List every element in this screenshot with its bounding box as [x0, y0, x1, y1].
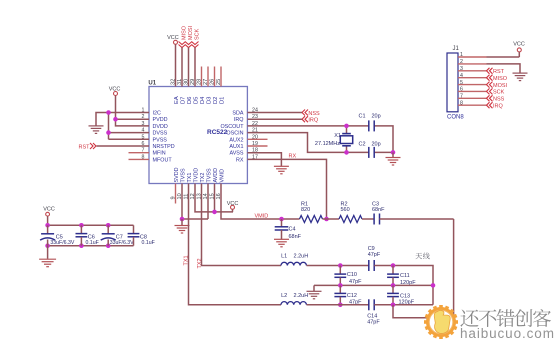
svg-text:IRQ: IRQ: [493, 104, 504, 110]
crystal X1 27.12MHz: [315, 126, 353, 152]
svg-text:D3: D3: [206, 97, 212, 104]
connector J1 CON8 body: [447, 46, 464, 121]
ground symbol below C4: [274, 239, 289, 247]
svg-text:VCC: VCC: [43, 207, 55, 213]
wire VCC to pins 2,3 PVDD DVDD: [116, 96, 150, 126]
svg-text:8: 8: [460, 100, 463, 106]
svg-text:D5: D5: [193, 97, 199, 104]
node junction TVSS pin10: [180, 217, 185, 222]
ground symbol at I2C: [89, 126, 104, 133]
capacitor C10 47pF: [334, 266, 362, 286]
svg-text:SCK: SCK: [493, 90, 505, 96]
wire VMID rail: [221, 184, 300, 220]
wire IRQ pin23 to IRQ port: [247, 118, 302, 120]
svg-text:PVSS: PVSS: [153, 137, 168, 143]
svg-text:VCC: VCC: [167, 35, 179, 41]
port MOSI at J1: [487, 82, 508, 89]
net label RX: [289, 154, 297, 160]
net label TX2: [197, 258, 203, 268]
wire VCC to EA pin 32: [175, 44, 177, 86]
svg-text:AVSS: AVSS: [230, 151, 244, 157]
svg-text:5: 5: [460, 80, 463, 86]
port RST at J1: [487, 68, 505, 75]
capacitor C13 120pF: [387, 285, 415, 305]
node junction pin1 I2C net: [106, 110, 111, 115]
svg-text:1: 1: [460, 52, 463, 58]
wire J1 pin2 to ground: [487, 64, 521, 73]
svg-text:CON8: CON8: [447, 115, 464, 121]
ground symbol at AVSS: [274, 166, 289, 174]
svg-text:SCK: SCK: [194, 28, 200, 40]
port NSS: [302, 110, 320, 118]
capacitor C2 20p: [359, 142, 381, 158]
svg-text:DVSS: DVSS: [153, 131, 168, 137]
svg-text:0.1uF: 0.1uF: [142, 240, 155, 246]
wire SDA pin24 to NSS port: [247, 112, 302, 114]
svg-text:TX2: TX2: [197, 258, 203, 268]
svg-text:MOSI: MOSI: [188, 25, 194, 40]
svg-text:3: 3: [460, 66, 463, 72]
inductor L1 2.2uH: [281, 253, 308, 265]
svg-text:SDA: SDA: [232, 111, 243, 117]
power VCC symbol below IC: [227, 201, 239, 212]
wire TVDD-AVDD-VCC supply line: [195, 184, 233, 212]
power VCC symbol decoupling bank: [43, 207, 55, 216]
port RST: [79, 143, 97, 150]
power VCC symbol above pin 32 EA: [167, 35, 179, 44]
svg-text:TVDD: TVDD: [193, 168, 199, 183]
svg-text:D6: D6: [187, 97, 193, 104]
ground symbol below pin10 TVSS: [175, 219, 190, 233]
svg-text:26: 26: [210, 79, 216, 85]
svg-text:MISO: MISO: [181, 25, 187, 40]
svg-text:L2: L2: [281, 293, 287, 299]
svg-text:VCC: VCC: [109, 87, 121, 93]
port SCK: [192, 28, 201, 47]
svg-text:820: 820: [301, 207, 310, 213]
watermark logo gear: [424, 305, 458, 339]
wire RST to pin6 NRSTPD: [97, 145, 150, 147]
wire R1 to R2: [323, 218, 340, 220]
svg-text:4: 4: [460, 73, 463, 79]
node junction crystal bottom OSCIN: [344, 150, 349, 155]
ground symbol at J1: [513, 73, 528, 81]
capacitor C3 68nF: [372, 201, 385, 224]
wire pins 4,5 DVSS PVSS tie: [109, 113, 150, 140]
node junctions on decoupling rails: [45, 223, 110, 248]
resistor R2 560: [339, 201, 362, 222]
svg-text:X1: X1: [334, 133, 341, 139]
node junction crystal top OSCOUT: [344, 124, 349, 129]
svg-text:6: 6: [460, 87, 463, 93]
text antenna label: [415, 253, 429, 260]
node junction R1-R2-RX: [324, 217, 329, 222]
svg-text:D2: D2: [213, 97, 219, 104]
svg-text:VCC: VCC: [227, 201, 239, 207]
svg-text:33uF/6.3V: 33uF/6.3V: [110, 240, 134, 246]
svg-text:2.2uH: 2.2uH: [294, 253, 309, 259]
svg-text:OSCOUT: OSCOUT: [220, 124, 244, 130]
svg-text:19: 19: [252, 141, 258, 147]
wire C5 column to ground: [47, 246, 49, 259]
port NSS at J1: [487, 95, 505, 102]
svg-text:TVSS: TVSS: [180, 168, 186, 182]
svg-text:VMID: VMID: [219, 169, 225, 183]
wire L1 to C9: [307, 265, 369, 267]
svg-text:20p: 20p: [372, 114, 381, 120]
svg-text:AUX1: AUX1: [229, 144, 243, 150]
IC U1 RC522 body: [148, 81, 247, 184]
svg-text:NRSTPD: NRSTPD: [153, 144, 175, 150]
port IRQ at J1: [487, 102, 504, 109]
svg-text:47pF: 47pF: [349, 279, 362, 285]
svg-text:2.2uH: 2.2uH: [294, 293, 309, 299]
svg-text:VMID: VMID: [255, 214, 269, 220]
svg-text:SVDD: SVDD: [174, 167, 180, 182]
capacitor C12 47pF: [334, 285, 362, 305]
node junction C4 tap: [279, 217, 284, 222]
svg-text:NSS: NSS: [493, 97, 505, 103]
ground symbol at crystal load caps: [386, 152, 401, 165]
svg-text:RST: RST: [79, 144, 91, 150]
capacitor C9 47pF: [368, 246, 381, 271]
svg-text:7: 7: [460, 94, 463, 100]
svg-text:25: 25: [216, 79, 222, 85]
svg-text:C11: C11: [400, 273, 410, 279]
port MOSI: [185, 25, 194, 47]
wire TVSS pins 10,14 ground line: [182, 184, 208, 220]
node junction C13 bottom: [391, 303, 396, 308]
capacitor C11 120pF: [387, 266, 416, 286]
svg-text:C4: C4: [289, 227, 296, 233]
capacitor C1 20p: [359, 114, 381, 132]
svg-text:DVDD: DVDD: [153, 124, 168, 130]
wire TX1 pin11 to L2: [189, 184, 282, 305]
svg-text:MISO: MISO: [493, 76, 508, 82]
node junction C12 bottom: [338, 303, 343, 308]
svg-text:68nF: 68nF: [372, 207, 385, 213]
wire L2 to C14: [307, 304, 369, 306]
svg-text:TX2: TX2: [200, 173, 206, 183]
wire decoupling bottom rail: [48, 245, 134, 247]
node junction C2 ground: [391, 150, 396, 155]
ground symbol antenna middle rail: [307, 285, 322, 298]
U1 top pins 32-25 numbers and names (EA D7 D6 D5 D4 D3 D2 D1): [171, 67, 226, 105]
node junction pin4 DVSS net: [106, 130, 111, 135]
svg-text:20: 20: [252, 134, 258, 140]
svg-text:560: 560: [341, 207, 350, 213]
port MISO at J1: [487, 75, 508, 82]
net label VMID: [255, 214, 269, 220]
svg-text:MFOUT: MFOUT: [153, 157, 173, 163]
svg-text:8: 8: [142, 154, 145, 160]
svg-text:haibucuo.com: haibucuo.com: [460, 326, 554, 341]
svg-text:RST: RST: [493, 69, 505, 75]
wire R2 to C3: [362, 218, 374, 220]
svg-text:D7: D7: [180, 97, 186, 104]
power VCC symbol left of U1: [109, 87, 121, 96]
ground symbol decoupling bank: [39, 259, 56, 267]
power VCC symbol at J1: [513, 42, 525, 52]
wire J1 pin1 to VCC: [487, 52, 520, 57]
node junctions middle rail: [338, 283, 435, 288]
wire antenna feed loop: [393, 219, 454, 318]
wire pin1 I2C to ground: [96, 113, 149, 126]
wire decoupling top rail: [48, 216, 134, 225]
svg-text:33uF/6.3V: 33uF/6.3V: [50, 240, 74, 246]
wire TX2 pin13 to L1: [202, 184, 282, 266]
resistor R1 820: [300, 201, 323, 222]
svg-text:EA: EA: [174, 96, 180, 104]
svg-text:MOSI: MOSI: [493, 83, 508, 89]
svg-text:AVDD: AVDD: [213, 168, 219, 183]
node junction VCC-PVDD: [113, 117, 118, 122]
svg-text:7: 7: [142, 148, 145, 154]
svg-text:C2: C2: [359, 142, 366, 148]
svg-text:VCC: VCC: [513, 42, 525, 48]
svg-text:U1: U1: [148, 81, 156, 87]
svg-text:20p: 20p: [372, 142, 381, 148]
port MISO: [179, 25, 188, 47]
wire C14 to antenna corner: [374, 304, 433, 306]
connector J1 pins 1-8: [458, 52, 487, 106]
wire OSCOUT pin22 to C1 and corner: [247, 126, 393, 152]
inductor L2 2.2uH: [281, 293, 308, 305]
svg-text:0.1uF: 0.1uF: [86, 240, 99, 246]
svg-text:RX: RX: [236, 157, 244, 163]
U1 left pins 1-8 numbers and names (I2C PVDD DVDD DVSS PVSS NRSTPD MFIN MFOUT): [129, 108, 175, 164]
wire antenna middle rail: [314, 284, 433, 286]
port IRQ: [302, 116, 319, 124]
node junction C11 top: [391, 263, 396, 268]
svg-text:2: 2: [460, 59, 463, 65]
svg-text:27: 27: [203, 79, 209, 85]
svg-text:TVSS: TVSS: [206, 168, 212, 182]
svg-text:9: 9: [171, 196, 177, 199]
wire RX pin17 to R1-R2 junction: [247, 159, 326, 219]
svg-text:27.12MHz: 27.12MHz: [315, 141, 340, 147]
svg-text:MFIN: MFIN: [153, 151, 166, 157]
node junction C10 top: [338, 263, 343, 268]
svg-text:AUX2: AUX2: [229, 137, 243, 143]
wire C9 to antenna corner: [374, 266, 433, 305]
svg-text:47pF: 47pF: [367, 320, 380, 326]
svg-text:TX1: TX1: [187, 173, 193, 183]
svg-text:PVDD: PVDD: [153, 117, 168, 123]
port SCK at J1: [487, 88, 505, 95]
svg-text:L1: L1: [281, 253, 287, 259]
U1 right pins 24-17 numbers and names (SDA IRQ OSCOUT OSCIN AUX2 AUX1 AVSS RX): [220, 108, 267, 164]
svg-text:IRQ: IRQ: [234, 117, 244, 123]
node junction AVDD pin15: [212, 210, 217, 215]
svg-text:D1: D1: [219, 97, 225, 104]
wire MISO to pin 31 D7: [181, 48, 183, 87]
capacitor C5 33uF/6.3V: [40, 225, 75, 246]
svg-text:C1: C1: [359, 114, 366, 120]
svg-text:I2C: I2C: [153, 111, 161, 117]
net label TX1: [184, 255, 190, 265]
svg-text:NSS: NSS: [308, 111, 320, 117]
svg-text:68nF: 68nF: [289, 234, 302, 240]
capacitor C6 0.1uF: [76, 225, 99, 246]
wire MOSI to pin 30 D6: [188, 48, 190, 87]
U1 bottom pins 9-16 numbers and names (SVDD TVSS TX1 TVDD TX2 TVSS AVDD VMID): [171, 167, 226, 203]
wire AVDD pin15 drop: [214, 184, 216, 212]
svg-text:47pF: 47pF: [368, 252, 381, 258]
wire AVSS pin18 to ground: [247, 153, 281, 166]
capacitor C14 47pF: [367, 299, 380, 325]
wire OSCIN pin21 routing: [247, 133, 393, 153]
wire C3 to antenna right side: [380, 218, 454, 220]
capacitor C4 68nF: [275, 219, 302, 240]
svg-text:IRQ: IRQ: [308, 118, 319, 124]
capacitor C8 0.1uF: [128, 225, 155, 246]
svg-text:C12: C12: [347, 293, 357, 299]
wire SCK to pin 29 D5: [194, 48, 196, 87]
watermark text haibucuo: [460, 309, 554, 341]
capacitor C7 33uF/6.3V: [101, 225, 134, 246]
svg-text:C10: C10: [347, 272, 357, 278]
svg-text:D4: D4: [200, 96, 206, 104]
svg-text:28: 28: [197, 79, 203, 85]
svg-text:J1: J1: [453, 46, 460, 52]
svg-text:OSCIN: OSCIN: [226, 131, 243, 137]
